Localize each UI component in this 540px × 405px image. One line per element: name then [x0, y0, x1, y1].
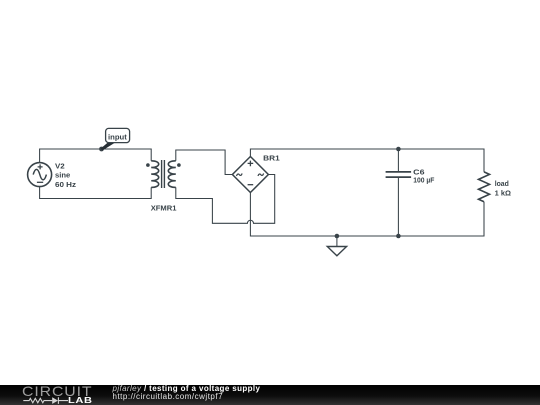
CircuitLab logo LAB text [68, 396, 93, 405]
footer url line [113, 392, 224, 402]
CircuitLab logo resistor+diode glyph [21, 396, 69, 405]
transformer XFMR1 primary polarity dot [146, 163, 150, 167]
wire transformer secondary bottom to bridge right (with hop) [176, 175, 275, 224]
ground [327, 234, 346, 256]
resistor load [479, 172, 490, 202]
wire transformer secondary top to bridge left [176, 150, 233, 175]
transformer XFMR1 primary winding [151, 161, 159, 188]
transformer XFMR1 core [162, 160, 165, 188]
svg-text:BR1: BR1 [263, 153, 280, 162]
junction node at C6 bottom [396, 234, 401, 239]
svg-text:sine: sine [55, 171, 70, 180]
label load "load / 1 kOhm" [495, 179, 511, 198]
svg-text:60 Hz: 60 Hz [55, 180, 76, 189]
voltage source V2 [28, 163, 52, 187]
footer title line [113, 384, 261, 394]
wire V2 top to transformer primary [40, 149, 152, 163]
bridge rectifier BR1 [232, 157, 268, 193]
junction node at C6 top [396, 147, 401, 152]
wire bridge bottom to ground rail [250, 193, 484, 237]
svg-text:V2: V2 [55, 161, 65, 170]
svg-text:input: input [108, 132, 127, 141]
node input flag [99, 128, 130, 151]
footer bar [0, 385, 540, 405]
svg-text:1 kΩ: 1 kΩ [495, 189, 511, 198]
svg-text:XFMR1: XFMR1 [151, 203, 177, 212]
label V2 "V2 / sine / 60 Hz" [55, 161, 76, 189]
capacitor C6 [386, 149, 412, 236]
wire bridge top to load top (top rail) [250, 149, 484, 172]
transformer XFMR1 secondary winding [168, 161, 176, 188]
label C6 "C6 / 100 uF" [413, 168, 435, 185]
wire V2 bottom to transformer primary [40, 187, 152, 199]
CircuitLab logo CIRCUIT text [22, 384, 92, 398]
svg-text:100 µF: 100 µF [413, 176, 435, 185]
transformer XFMR1 secondary polarity dot [177, 163, 181, 167]
svg-text:load: load [495, 179, 510, 188]
